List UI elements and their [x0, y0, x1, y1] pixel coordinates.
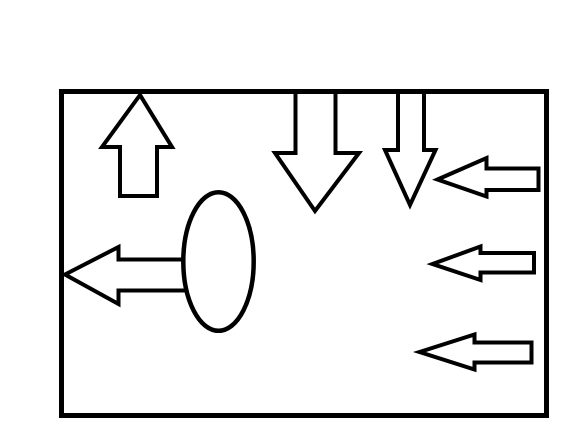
- down arrow 2 (narrow, hanging from top border): [385, 92, 436, 206]
- down arrow 1 (wide, hanging from top border): [275, 92, 359, 212]
- left arrow upper-right: [438, 158, 539, 197]
- border rectangle: [62, 92, 547, 416]
- ellipse (drawn over arrow tail): [183, 192, 253, 331]
- left arrow lower-right: [420, 335, 532, 370]
- left arrow middle-left (tip touching left border, tail under ellipse): [65, 247, 195, 304]
- left arrow middle-right: [433, 247, 535, 281]
- up arrow (top-left, tip touching top border): [102, 95, 172, 196]
